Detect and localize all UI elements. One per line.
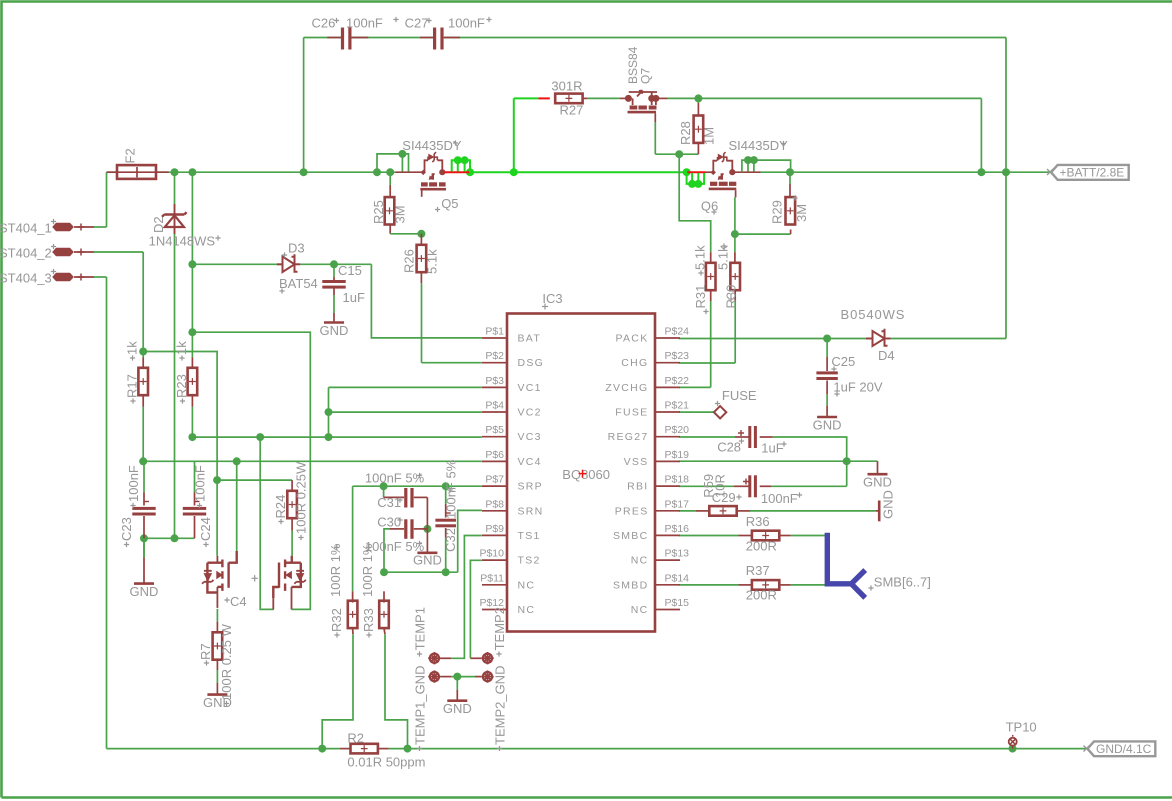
pad TEMP2_GND [483, 672, 492, 681]
svg-text:P$3: P$3 [485, 375, 504, 387]
capacitor C25 1uF 20V [826, 339, 828, 358]
wire TS1 net [451, 536, 482, 659]
wire temp gnd stem [456, 677, 458, 690]
node C25 junction [823, 335, 831, 343]
resistor R28 1M [697, 98, 699, 103]
svg-text:R24: R24 [273, 495, 288, 519]
wire SMBC/R36 net y=535.5 [679, 535, 739, 537]
svg-text:C25: C25 [831, 354, 855, 369]
svg-text:+BATT/2.8E: +BATT/2.8E [1060, 165, 1125, 179]
svg-text:P$7: P$7 [485, 474, 504, 486]
resistor R25 3M [389, 172, 391, 185]
capacitor C27 100nF [420, 37, 433, 39]
svg-text:SMB[6..7]: SMB[6..7] [874, 575, 931, 590]
svg-text:R28: R28 [678, 121, 693, 145]
svg-text:P$14: P$14 [665, 572, 690, 584]
svg-text:VSS: VSS [624, 456, 649, 468]
svg-text:P$1: P$1 [485, 326, 504, 338]
node Q5 gate loop dot [398, 150, 406, 158]
svg-text:R29: R29 [770, 200, 785, 224]
wire TS2 net [470, 560, 482, 658]
ground for VSS [877, 461, 879, 474]
wire ST404_1 branch [94, 226, 107, 228]
wire R23 bottom to VC3 [191, 407, 193, 437]
wire Q7 out to right [668, 97, 982, 99]
resistor R25 body [385, 197, 395, 224]
resistor R37 body [752, 580, 779, 590]
wire REG27/C28 net [679, 436, 735, 438]
svg-text:NC: NC [631, 555, 649, 567]
svg-text:100nF: 100nF [761, 491, 798, 506]
wire C32 leads [445, 486, 447, 504]
svg-text:VC4: VC4 [518, 456, 542, 468]
wire Q5 drain lead [421, 191, 423, 197]
node temp gnd junction [453, 673, 461, 681]
svg-text:BAT54: BAT54 [279, 276, 318, 291]
svg-text:NC: NC [518, 579, 536, 591]
svg-text:B0540WS: B0540WS [841, 307, 906, 322]
wire x=260 branch to C4 fet [260, 437, 274, 609]
pad TEMP2 [483, 654, 492, 663]
pin P$22 ZVCHG [655, 386, 680, 388]
svg-text:VC2: VC2 [518, 407, 542, 419]
resistor R7 body [213, 632, 223, 659]
svg-text:FUSE: FUSE [615, 407, 648, 419]
node R27 drop junction [510, 168, 518, 176]
node Q5 comb dot2 [461, 156, 469, 164]
wire Q7/R27 net y=98.4 [514, 97, 539, 99]
node VC1-drop junction [325, 433, 333, 441]
pin P$2 DSG [482, 362, 507, 364]
svg-text:P$20: P$20 [665, 424, 690, 436]
resistor R30 body [730, 263, 740, 290]
svg-text:200R: 200R [746, 539, 777, 554]
connector ST404_1 pad [52, 223, 74, 231]
resistor R30 5.1k [734, 252, 736, 264]
pin P$10 TS2 [482, 559, 507, 561]
resistor R29 3M [789, 172, 791, 184]
wire ST404_3 branch x=106.5 down [94, 276, 107, 278]
svg-text:GND: GND [881, 490, 896, 519]
pad TEMP1_GND [430, 672, 439, 681]
resistor R26 body [417, 245, 427, 272]
wire C4 drain to R7 [216, 609, 218, 622]
svg-text:P$10: P$10 [479, 548, 504, 560]
wire DSG net R26 to P$2 [421, 283, 423, 362]
svg-text:D2: D2 [151, 216, 166, 233]
wire down to R30 [734, 234, 736, 252]
resistor R31 5.1k [710, 252, 712, 264]
node Q5 comb dot1 [454, 156, 462, 164]
svg-text:GND: GND [320, 323, 349, 338]
svg-text:GND: GND [130, 584, 159, 599]
capacitor C28 plates [748, 426, 751, 448]
capacitor C29 100nF [734, 485, 749, 487]
wire Q5 gate loop [377, 154, 409, 172]
pad TEMP1 [430, 654, 439, 663]
node VC3 left junction [188, 433, 196, 441]
wire C31/C30 right join [426, 497, 428, 529]
node R29/Q6 source junction [786, 168, 794, 176]
svg-text:SRN: SRN [518, 505, 544, 517]
svg-text:R36: R36 [746, 514, 770, 529]
pin P$1 BAT [482, 337, 507, 339]
wire C31 left branch [383, 486, 385, 494]
svg-text:5.1k: 5.1k [716, 245, 731, 270]
wire SRP down to R32 [352, 486, 354, 591]
fuse F2 [117, 165, 156, 179]
node R2 right junction [404, 745, 412, 753]
svg-text:VC1: VC1 [518, 382, 542, 394]
node Q6 source comb dot1 [744, 156, 752, 164]
svg-text:CHG: CHG [621, 357, 648, 369]
svg-text:C23: C23 [119, 517, 134, 541]
node BAT net junction [188, 260, 196, 268]
resistor R27 body [555, 94, 582, 104]
node C32 bottom junction [442, 568, 450, 576]
pin P$16 SMBC [655, 534, 680, 536]
wire x=981 down to BATT rail [980, 98, 982, 172]
svg-text:100nF 5%: 100nF 5% [365, 471, 425, 486]
resistor R7 100R 0.25W [216, 622, 218, 633]
pin P$3 VC1 [482, 386, 507, 388]
transistor Q7 BSS84 [620, 97, 628, 99]
pin P$18 RBI [655, 485, 680, 487]
wire SRN up to P$8 [458, 510, 482, 572]
svg-text:R33: R33 [361, 608, 376, 632]
pin P$4 VC2 [482, 411, 507, 413]
svg-text:100nF: 100nF [193, 465, 208, 502]
svg-text:1k: 1k [125, 341, 140, 355]
resistor R59 10R body on PRES line [696, 510, 710, 512]
capacitor C29 plates [748, 475, 751, 497]
svg-text:SMBD: SMBD [613, 579, 649, 591]
node Q7 net junction [977, 168, 985, 176]
svg-text:R17: R17 [125, 374, 140, 398]
node VC3 branch junction [256, 433, 264, 441]
transistor C4 left P-FET [216, 556, 218, 563]
svg-text:SI4435DY: SI4435DY [729, 138, 789, 153]
svg-text:R27: R27 [560, 103, 584, 118]
wire bottom GND rail y=748.6 [107, 748, 340, 750]
connector ST404_2 pad [52, 248, 74, 256]
node SRN rail left junction [380, 568, 388, 576]
svg-text:SRP: SRP [518, 481, 544, 493]
svg-text:1uF: 1uF [761, 441, 783, 456]
svg-text:TS2: TS2 [518, 555, 541, 567]
svg-text:C15: C15 [338, 263, 362, 278]
wire x=1006 right rail down to PACK/D4 [1005, 38, 1007, 339]
node Q6 gate comb junction [683, 168, 691, 176]
capacitor C15 plates [322, 280, 345, 283]
svg-text:P$17: P$17 [665, 498, 690, 510]
wire ZVCHG P$22 [679, 386, 711, 388]
node x192/x310 branch junction [188, 328, 196, 336]
svg-text:C32: C32 [443, 528, 458, 552]
wire VC3 net [192, 436, 482, 438]
pin P$13 NC [655, 559, 680, 561]
svg-text:C26: C26 [312, 16, 336, 31]
ground VSS [868, 473, 888, 476]
wire BAT net from x=192 to P$1 [192, 263, 282, 265]
diode D2 1N4148WS zener [162, 204, 187, 234]
pin P$24 PACK [655, 337, 680, 339]
op-amp/IC U1: IC3 BQ8060 box [507, 314, 655, 632]
svg-text:1uF 20V: 1uF 20V [833, 380, 882, 395]
capacitor C32 100nF 5% [445, 504, 447, 518]
svg-text:C28: C28 [717, 440, 741, 455]
resistor R59 body [709, 506, 736, 516]
wire Q6 gate drive to R31 [679, 154, 711, 252]
svg-text:P$6: P$6 [485, 449, 504, 461]
wire SMBD/R37 net y=584.9 [679, 584, 739, 586]
ground C23 rail [134, 582, 154, 585]
svg-text:PRES: PRES [615, 505, 649, 517]
bus SMB[6..7] [827, 533, 865, 598]
svg-text:P$9: P$9 [485, 523, 504, 535]
svg-text:P$8: P$8 [485, 498, 504, 510]
wire Q6 drain down [734, 197, 736, 234]
wire VSS net y=461.2 [679, 460, 878, 462]
node Q6 comb dot1 [688, 180, 696, 188]
capacitor C28 1uF [735, 436, 749, 438]
resistor R33 100R 1% [383, 591, 385, 602]
svg-text:BAT: BAT [518, 333, 542, 345]
svg-text:TEMP1_GND: TEMP1_GND [413, 666, 428, 745]
svg-text:ST404_3: ST404_3 [0, 271, 52, 286]
pin P$21 FUSE [655, 411, 680, 413]
node R29/R30 junction [731, 230, 739, 238]
svg-text:200R: 200R [746, 588, 777, 603]
svg-text:5.1k: 5.1k [693, 245, 708, 270]
pin P$23 CHG [655, 362, 680, 364]
svg-text:TEMP2_GND: TEMP2_GND [493, 666, 508, 745]
capacitor C30 100nF 5% [390, 528, 404, 530]
svg-text:301R: 301R [551, 79, 582, 94]
svg-text:P$2: P$2 [485, 350, 504, 362]
svg-text:REG27: REG27 [608, 431, 649, 443]
svg-text:C4: C4 [230, 594, 247, 609]
ground below C23 [143, 538, 145, 557]
capacitor C15 1uF [333, 264, 335, 277]
resistor R33 body [379, 601, 389, 628]
svg-text:C31: C31 [377, 495, 401, 510]
wire D2 anode line x=174.5 [174, 172, 176, 538]
node x192 junction [188, 168, 196, 176]
wire PACK net y=338.5 [679, 338, 873, 340]
ground below R7 [207, 693, 227, 696]
resistor R32 body [348, 601, 358, 628]
wire x=310 long branch to C4 fet [192, 332, 310, 609]
capacitor C25 plates [816, 371, 837, 374]
wire bright vertical to BATT rail [513, 98, 515, 172]
node R28 top junction [694, 94, 702, 102]
resistor R24 100R 0.25W [291, 480, 293, 491]
svg-text:Q5: Q5 [441, 196, 458, 211]
svg-text:D4: D4 [878, 348, 895, 363]
node TP10 junction [1009, 745, 1017, 753]
wire Q6 drain lead [735, 190, 737, 197]
node Q6 comb dot2 [694, 180, 702, 188]
svg-text:1N4148WS: 1N4148WS [149, 234, 216, 249]
svg-text:Q7: Q7 [639, 68, 653, 84]
svg-text:P$16: P$16 [665, 523, 690, 535]
wire VC2 net [329, 411, 482, 413]
svg-text:P$22: P$22 [665, 375, 690, 387]
node R25 junction [386, 168, 394, 176]
wire Q7 drain to R28 bottom y=154.2 [654, 122, 656, 154]
svg-text:NC: NC [631, 604, 649, 616]
svg-text:D3: D3 [288, 241, 305, 256]
ground below C30/C31 [426, 529, 428, 552]
wire top 100nF rail y=37.5 [304, 37, 341, 39]
svg-text:1M: 1M [702, 127, 717, 145]
wire x=217.1 to C4 left fet gate [216, 480, 218, 556]
svg-text:Q6: Q6 [701, 199, 718, 214]
resistor R26 5.1k [420, 234, 422, 245]
wire C30 left branch down [384, 529, 390, 572]
resistor R32 100R 1% [352, 591, 354, 602]
svg-text:R25: R25 [371, 200, 386, 224]
pin P$15 NC [655, 609, 680, 611]
node Q6 source comb dot2 [750, 156, 758, 164]
svg-text:GND: GND [413, 553, 442, 568]
node VC2 junction [325, 408, 333, 416]
node R25/R26 junction [417, 230, 425, 238]
svg-text:RBI: RBI [627, 481, 648, 493]
wire Q5 source comb (highlighted) [444, 171, 469, 173]
node D2 gnd junction [171, 534, 179, 542]
svg-text:5.1k: 5.1k [424, 249, 439, 274]
svg-text:R31: R31 [693, 285, 708, 309]
svg-text:SMBC: SMBC [613, 530, 649, 542]
svg-text:ZVCHG: ZVCHG [605, 382, 648, 394]
net flag +BATT/2.8E [1051, 165, 1129, 180]
svg-text:P$19: P$19 [665, 449, 690, 461]
svg-text:R7: R7 [198, 643, 213, 660]
svg-text:R2: R2 [347, 731, 364, 746]
svg-text:GND: GND [813, 418, 842, 433]
wire C23 to GND [143, 538, 145, 557]
resistor R28 body [694, 116, 704, 143]
svg-text:R26: R26 [402, 249, 417, 273]
pin P$14 SMBD [655, 584, 680, 586]
node C23 bottom junction [140, 534, 148, 542]
transistor C4 right P-FET [291, 556, 293, 563]
svg-text:C30: C30 [377, 515, 401, 530]
wire Q6 gate comb (highlighted) [687, 171, 706, 173]
svg-text:TS1: TS1 [518, 530, 541, 542]
pin P$9 TS1 [482, 534, 507, 536]
wire VC1 net [329, 386, 482, 388]
svg-text:100nF: 100nF [448, 16, 485, 31]
pin P$17 PRES [655, 510, 680, 512]
resistor R27 301R [538, 97, 549, 99]
svg-text:100nF: 100nF [346, 16, 383, 31]
wire R24 top rail y=480.1 [217, 479, 292, 481]
node VSS junction [843, 457, 851, 465]
wire CHG P$23 [679, 362, 735, 364]
svg-text:NC: NC [518, 604, 536, 616]
node Q6 gate drive junction [675, 150, 683, 158]
ground below C15 [324, 321, 344, 324]
node C30/C31 gnd junction [423, 525, 431, 533]
svg-text:100R 0.25 W: 100R 0.25 W [219, 623, 234, 700]
svg-text:F2: F2 [123, 148, 138, 163]
wire PRES/R59 net y=510.9 [679, 510, 696, 512]
svg-text:1uF: 1uF [343, 290, 365, 305]
svg-text:GND: GND [863, 475, 892, 490]
resistor R17 1k [142, 357, 144, 368]
pin P$5 VC3 [482, 436, 507, 438]
svg-text:0.01R 50ppm: 0.01R 50ppm [347, 755, 425, 770]
capacitor C24 plates [183, 507, 206, 510]
wire highlighted net Q5-Q6 [470, 171, 687, 173]
wire R30 bottom to CHG [734, 301, 736, 363]
svg-text:P$4: P$4 [485, 400, 504, 412]
ground temp pads [456, 690, 458, 701]
wire FUSE stub P$21 [679, 411, 716, 413]
resistor R37 200R [739, 584, 753, 586]
wire C23/C24 top leads [143, 461, 145, 492]
svg-text:P$23: P$23 [665, 350, 690, 362]
node R2 left junction [318, 745, 326, 753]
ground C30 [417, 551, 437, 554]
svg-text:100R 0.25W: 100R 0.25W [294, 461, 309, 534]
wire branch to R24 rail [143, 352, 217, 481]
capacitor C26 100nF [327, 37, 341, 39]
capacitor C31 100nF 5% [383, 494, 385, 497]
resistor R31 body [706, 263, 716, 290]
resistor R2 0.01R 50ppm [340, 748, 352, 750]
svg-text:P$5: P$5 [485, 424, 504, 436]
ground PRES rotated [876, 510, 879, 512]
capacitor C23 100nF [143, 493, 145, 506]
pin P$20 REG27 [655, 436, 680, 438]
svg-text:P$11: P$11 [480, 572, 504, 584]
svg-text:R23: R23 [174, 374, 189, 398]
diode D4 B0540WS [866, 329, 891, 346]
svg-text:DSG: DSG [518, 357, 545, 369]
wire R27 to Q7 gate [587, 97, 620, 99]
diode D3 BAT54 schottky [277, 254, 300, 272]
svg-text:PACK: PACK [615, 333, 648, 345]
ground below C25 [817, 416, 837, 419]
node Q5 gate loop junction [373, 168, 381, 176]
pin P$12 NC [482, 609, 507, 611]
node C26 rail junction [300, 168, 308, 176]
node R17 top junction [139, 348, 147, 356]
wire R31 bottom to ZVCHG [710, 301, 712, 387]
svg-text:P$21: P$21 [665, 400, 690, 412]
resistor R36 body [752, 531, 779, 541]
wire Q6 source comb [742, 160, 791, 172]
wire x=192.4 vertical BATT to R23 [191, 172, 193, 357]
pin P$7 SRP [482, 485, 507, 487]
svg-text:P$13: P$13 [665, 548, 690, 560]
svg-text:1k: 1k [174, 341, 189, 355]
fuse net stub FUSE P$21 [714, 406, 726, 418]
wire x=236.7 to C4 left fet [236, 461, 238, 551]
node C31 junction [380, 482, 388, 490]
svg-text:TP10: TP10 [1006, 720, 1037, 735]
svg-text:TEMP2: TEMP2 [492, 607, 507, 650]
wire SRN rail y=572.2 [384, 571, 458, 573]
svg-text:3M: 3M [393, 205, 408, 223]
wire R17 bottom to VC4 [142, 407, 144, 462]
node fuse/D2 junction [171, 168, 179, 176]
svg-text:FUSE: FUSE [722, 388, 757, 403]
